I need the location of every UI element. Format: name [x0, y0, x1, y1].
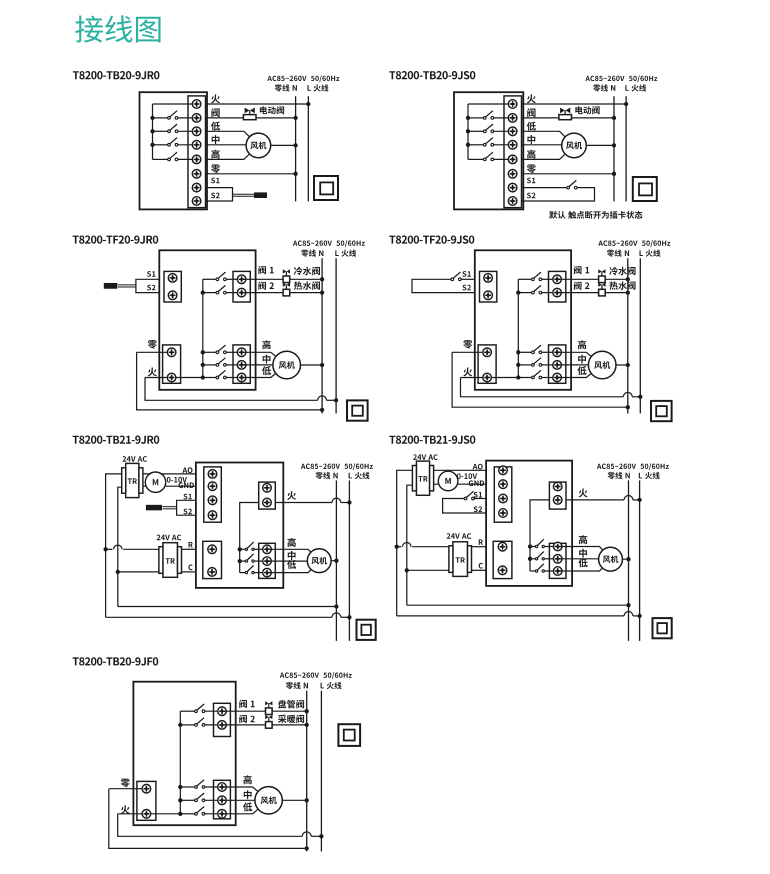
D3 wire fan to N [287, 364, 322, 366]
D4 wire 阀2 to N [557, 292, 628, 294]
D6 terminal screw AO [499, 466, 508, 475]
D5 junction rail on L [347, 615, 351, 619]
D2 power rating label AC85~260V 50/60Hz [585, 75, 657, 82]
D7 neutral label 零线 N [286, 682, 308, 689]
D6 fan switch 2 [535, 552, 544, 560]
D3 live label L 火线 [335, 250, 356, 257]
D3 wire bus to valve switch 1 [203, 278, 216, 280]
D2 valve label 电动阀 [575, 106, 599, 114]
D5 power rating label AC85~260V 50/60Hz [301, 463, 373, 470]
D2 terminal screw 8 [508, 197, 517, 206]
D5 rail outer to L with crossover [106, 616, 332, 618]
D3 wire 零 input [137, 351, 172, 353]
D2 wire switch low to terminal [494, 130, 513, 132]
D2 wire 火 terminal to L [522, 103, 627, 105]
D2 wire switch mid to terminal [494, 144, 513, 146]
D4 label 高 [578, 340, 586, 349]
D4 wire bus to valve switch 1 [518, 278, 531, 280]
D3 neutral live terminal box [163, 345, 181, 383]
D5 terminal screw aux [263, 484, 272, 493]
D2 live label L 火线 [625, 84, 646, 91]
D3 wire 阀1 to N [242, 278, 323, 280]
D4 零 drop wire [452, 352, 628, 407]
D6 R C terminal box [493, 541, 512, 578]
D6 terminal screw R [498, 542, 507, 551]
D7 thermostat outer box [133, 682, 235, 826]
D4 wire switch1 to 阀1 terminal [542, 278, 557, 280]
D7 label 中 [244, 790, 252, 799]
D4 junction fan on N [626, 363, 630, 367]
D1 live label L 火线 [307, 84, 328, 91]
D3 label 冷水阀 [294, 267, 320, 276]
D1 wire switch valve to terminal [178, 117, 197, 119]
D4 live label L 火线 [639, 250, 660, 257]
D6 terminal screw 火 [553, 496, 562, 505]
D4 terminal screw 零 [483, 348, 492, 357]
D5 fan switch 1 [245, 542, 254, 550]
D4 junction 阀2 on N [626, 290, 630, 294]
D6 fan motor 风机 [599, 547, 623, 571]
D2 terminal label 零 [527, 164, 536, 173]
D4 hot water valve symbol [598, 283, 605, 296]
D5 label GND [179, 482, 194, 488]
D4 label 阀 1 [574, 266, 589, 274]
D6 power line N [628, 480, 630, 641]
D1 wire 阀 terminal to N [206, 117, 296, 119]
D4 wire fan to N [602, 364, 628, 366]
D3 wire low speed to fan [242, 365, 287, 378]
D3 power line N [321, 258, 323, 413]
D3 junction bus live feed [201, 375, 205, 379]
D5 sensor probe [146, 505, 162, 511]
D6 thermostat outer box [486, 461, 572, 586]
D6 terminal screw fan 2 [553, 555, 562, 564]
D1 temperature sensor connector [206, 188, 233, 201]
D7 wire low speed to fan [222, 800, 269, 814]
D3 wire high speed to fan [242, 352, 287, 365]
D6 junction rail on L [637, 614, 641, 618]
D6 label S1 [474, 492, 482, 498]
D2 neutral label 零线 N [593, 84, 615, 91]
D5 terminal screw S2 [208, 511, 217, 520]
D2 junction 火 on L [624, 102, 628, 106]
D3 fan speed terminal box [233, 345, 250, 383]
D1 switch mid speed [168, 138, 178, 147]
D5 power line N [335, 480, 337, 641]
D7 terminal screw 阀1 [218, 707, 227, 716]
D5 wire GND [143, 485, 196, 487]
D3 wire switch2 to 阀2 terminal [226, 292, 241, 294]
D1 wire fan to N [258, 144, 295, 146]
D5 terminal screw fan 3 [263, 568, 272, 577]
D6 junction switch bus [528, 557, 532, 561]
D5 wire fan to N [319, 560, 336, 562]
D4 wire 零 input [452, 351, 487, 353]
D2 terminal label 火 [527, 94, 536, 103]
D3 internal bus vertical [202, 279, 204, 377]
D4 wire bus to fan switch 2 [518, 364, 531, 366]
D4 card contact circuit S1-S2 [412, 279, 475, 292]
D5 wire 24VAC outer to R with crossover [106, 548, 113, 550]
D4 label 热水阀 [609, 281, 635, 290]
D3 label 中 [263, 355, 271, 364]
D3 wire bus to valve switch 2 [203, 292, 216, 294]
D6 label 高 [579, 535, 587, 544]
D7 wire fan switch 2 to terminal [205, 799, 222, 801]
D7 terminal screw 火 [142, 810, 151, 819]
D1 model title T8200-TB20-9JR0 [73, 71, 160, 79]
D4 火 drop wire with crossover to L [461, 378, 624, 397]
D6 label 24V AC for TR1 [413, 454, 438, 460]
D1 wire low speed to fan [206, 131, 259, 145]
D3 class II insulation symbol [347, 400, 368, 420]
D3 label 热水阀 [294, 281, 320, 290]
D7 label 阀 2 [239, 715, 255, 723]
D7 heating valve symbol [265, 715, 272, 728]
D7 wire fan switch 3 to terminal [205, 813, 222, 815]
D4 fan switch 1 [532, 345, 542, 354]
D1 terminal label 中 [212, 135, 220, 144]
D7 junction 火 rail on L [319, 834, 323, 838]
D5 label 24V AC for TR2 [157, 535, 182, 541]
D2 terminal label 低 [527, 122, 536, 131]
D5 wire 火 box to switch bus [240, 503, 259, 573]
D2 switch mid speed [483, 138, 493, 147]
D3 junction 零 rail on N [320, 408, 324, 412]
D6 wire low speed to fan [558, 559, 611, 571]
D6 wire switch to terminal 3 [545, 570, 558, 572]
D6 junction fan on N [626, 557, 630, 561]
D7 terminal screw 阀2 [218, 721, 227, 730]
D6 label C [479, 563, 483, 569]
D1 terminal screw 7 [192, 183, 201, 192]
D2 terminal label S1 [527, 178, 535, 184]
D3 wire mid speed to fan [242, 364, 287, 366]
D3 thermostat outer box [159, 250, 255, 389]
D4 terminal screw S1 [484, 274, 493, 283]
page title 接线图 [75, 15, 160, 42]
D2 wire live feed to terminal 1 [468, 103, 513, 105]
D5 label 24V AC for TR1 [122, 456, 147, 462]
D5 fan switch 2 [245, 554, 254, 562]
D6 wire 24VAC inner to C [407, 569, 449, 571]
D7 fan switch 3 [195, 807, 205, 816]
D2 wire switch high to terminal [494, 158, 513, 160]
D2 fan motor 风机 [562, 133, 587, 158]
D6 label 24V AC for TR2 [447, 533, 472, 539]
D4 power line L [639, 258, 641, 413]
D1 terminal screw 2 [192, 114, 201, 123]
D4 terminal screw 阀1 [553, 275, 562, 284]
D7 label 盘管阀 [278, 700, 304, 709]
D6 model title T8200-TB21-9JS0 [389, 436, 475, 444]
D5 terminal screw GND [208, 482, 217, 491]
D3 valve switch 2 [216, 285, 226, 294]
D7 power line L [320, 691, 322, 852]
D1 wire 零 terminal to N [206, 173, 296, 175]
D7 fan switch 1 [195, 780, 205, 789]
D3 power rating label AC85~260V 50/60Hz [293, 240, 365, 247]
D3 fan switch 3 [216, 370, 226, 379]
D4 label 零 [463, 340, 472, 349]
D1 wire 火 terminal to L [206, 103, 309, 105]
D4 terminal screw 火 [483, 373, 492, 382]
D6 card contact circuit S1-S2 [443, 499, 487, 514]
D4 label 低 [577, 366, 586, 375]
D5 wire switch to terminal 2 [254, 560, 267, 562]
D2 wire bus to switch low [468, 130, 483, 132]
D2 terminal screw 2 [508, 114, 517, 123]
D3 fan motor 风机 [273, 351, 301, 379]
D5 junction switch bus [238, 559, 242, 563]
D4 wire high speed to fan [557, 352, 602, 365]
D4 junction on bus [516, 363, 520, 367]
D7 wire bus to fan switch 1 [180, 786, 194, 788]
D6 junction C on inner bus [405, 568, 409, 572]
D5 label C [188, 565, 192, 571]
D4 valve output terminal box [549, 271, 566, 302]
D6 label S2 [474, 506, 482, 512]
D4 wire mid speed to fan [557, 364, 602, 366]
D6 wire high speed to fan [558, 547, 611, 560]
D1 motorized valve symbol [243, 108, 256, 120]
D1 power line L [307, 96, 309, 201]
D5 label 低 [287, 560, 296, 569]
D1 sensor probe [254, 192, 267, 198]
D7 class II insulation symbol [338, 724, 360, 746]
D1 wire mid speed to fan [206, 144, 259, 146]
D6 junction 火 on L [637, 498, 641, 502]
D5 junction switch bus [238, 547, 242, 551]
D4 power line N [627, 258, 629, 413]
D6 terminal screw fan 1 [553, 542, 562, 551]
D1 terminal label 零 [211, 164, 220, 173]
D2 terminal label 高 [527, 150, 535, 159]
D5 actuator motor M [145, 472, 165, 492]
D4 sensor terminal box S1 S2 [480, 271, 497, 302]
D3 model title T8200-TF20-9JR0 [73, 235, 159, 243]
D7 wire bus to fan switch 3 [180, 813, 194, 815]
D6 wire TR2 to C terminal [472, 569, 487, 571]
D1 junction 零 on N [293, 172, 297, 176]
D2 power line N [613, 96, 615, 201]
D3 label S2 [147, 285, 155, 291]
D2 wire low speed to fan [522, 131, 575, 145]
D5 R C terminal box [203, 541, 222, 578]
D3 junction on bus [201, 363, 205, 367]
D2 terminal screw 6 [508, 170, 517, 179]
D5 junction C on inner bus [116, 570, 120, 574]
D2 wire 零 terminal to N [522, 173, 615, 175]
D1 class II insulation symbol [314, 176, 338, 200]
D6 junction R on outer bus [395, 545, 399, 549]
D2 junction bus row 4 [466, 143, 470, 147]
D5 wire bus to fan switch 3 [240, 572, 245, 574]
D6 wire 火 box to switch bus [530, 500, 549, 571]
D6 wire bus to fan switch 3 [530, 570, 535, 572]
D1 wire bus to switch low [153, 130, 168, 132]
D4 label S2 [462, 285, 470, 291]
D1 terminal label 高 [211, 150, 219, 159]
D3 wire 阀2 to N [242, 292, 323, 294]
D7 live label L 火线 [321, 682, 342, 689]
D2 power line L [625, 96, 627, 201]
D7 valve switch 1 [195, 704, 205, 713]
D7 wire 火 input to bus [118, 813, 181, 815]
D5 class II insulation symbol [357, 620, 376, 640]
D2 junction bus row 2 [466, 116, 470, 120]
D7 fan switch 2 [195, 793, 205, 802]
D3 terminal screw fan 3 [237, 373, 246, 382]
D2 terminal screw 4 [508, 141, 517, 150]
D4 label 阀 2 [574, 282, 590, 290]
D1 sensor cable [233, 193, 255, 195]
D1 wire switch high to terminal [178, 158, 197, 160]
D3 junction fan on N [320, 363, 324, 367]
D3 junction on bus [201, 350, 205, 354]
D2 junction 零 on N [612, 172, 616, 176]
D3 wire bus to fan switch 2 [203, 364, 216, 366]
D4 junction 阀1 on N [626, 277, 630, 281]
D7 junction on bus [178, 798, 182, 802]
D7 power rating label AC85~260V 50/60Hz [280, 672, 352, 679]
D4 internal bus vertical [517, 279, 519, 377]
D3 terminal screw 零 [167, 348, 176, 357]
D1 wire high speed to fan [206, 145, 259, 159]
D1 power line N [295, 96, 297, 201]
D2 junction fan on N [612, 143, 616, 147]
D1 junction bus row 3 [150, 129, 154, 133]
D4 wire 火 input to bus [461, 377, 519, 379]
D1 terminal screw 1 [192, 100, 201, 109]
D1 valve label 电动阀 [260, 106, 284, 114]
D4 fan switch 2 [532, 358, 542, 367]
D1 terminal label S1 [211, 178, 219, 184]
D3 sensor terminal box S1 S2 [164, 271, 181, 302]
D4 label 中 [578, 355, 586, 364]
D3 wire fan switch 2 to terminal [226, 364, 241, 366]
D2 wire 阀 terminal to N [522, 117, 615, 119]
D2 switch high speed [483, 152, 493, 161]
D2 wire switch valve to terminal [494, 117, 513, 119]
D4 wire fan switch 2 to terminal [542, 364, 557, 366]
D5 terminal screw AO [208, 470, 217, 479]
D2 terminal label 阀 [527, 108, 535, 117]
D2 terminal screw 5 [508, 155, 517, 164]
D3 sensor probe [104, 283, 118, 289]
D5 wire TR2 to R terminal [182, 548, 196, 550]
D5 label S1 [183, 494, 191, 500]
D2 class II insulation symbol [633, 177, 657, 201]
D7 wire bus to valve switch 1 [180, 710, 194, 712]
D2 thermostat outer box [454, 92, 523, 209]
D7 power line N [306, 691, 308, 852]
D5 wire TR1 to 24VAC bus inner [118, 487, 122, 606]
D5 wire 火 to L with crossover [275, 502, 332, 504]
D1 wire bus to switch valve [153, 117, 168, 119]
D4 label 冷水阀 [609, 267, 635, 276]
D6 wire mid speed to fan [558, 558, 611, 560]
D3 零 drop wire [137, 352, 323, 410]
D7 wire 阀2 to N [222, 724, 307, 726]
D2 junction bus row 3 [466, 129, 470, 133]
D1 terminal screw 8 [192, 197, 201, 206]
D7 label 高 [243, 775, 251, 784]
D6 wire 火 to L with crossover [566, 499, 624, 501]
D3 terminal screw 阀1 [237, 275, 246, 284]
D4 valve switch 2 [532, 285, 542, 294]
D2 junction 阀 on N [612, 116, 616, 120]
D3 valve switch 1 [216, 272, 226, 281]
D7 junction on bus [178, 723, 182, 727]
D7 label 采暖阀 [278, 715, 304, 723]
D1 terminal screw 3 [192, 127, 201, 136]
D7 neutral live terminal box [137, 781, 156, 820]
D2 wire high speed to fan [522, 145, 575, 159]
D6 fan switch 3 [535, 564, 544, 572]
D4 wire 阀1 to N [557, 278, 628, 280]
D6 wire AO [434, 469, 487, 471]
D4 valve switch 1 [532, 272, 542, 281]
D4 power rating label AC85~260V 50/60Hz [598, 240, 670, 247]
D4 terminal screw fan 2 [553, 361, 562, 370]
D5 wire switch to terminal 1 [254, 548, 267, 550]
D7 fan speed terminal box [214, 780, 231, 819]
D1 terminal label 低 [211, 122, 220, 131]
D5 junction R on outer bus [103, 547, 107, 551]
D1 junction bus row 2 [150, 116, 154, 120]
D5 wire switch to terminal 3 [254, 572, 267, 574]
D5 fan switch 3 [245, 565, 254, 573]
D3 火 drop wire with crossover to L [145, 378, 318, 401]
D5 fan terminal box [259, 543, 276, 578]
D6 junction rail on N [626, 603, 630, 607]
D2 wire fan to N [574, 144, 614, 146]
D7 junction bus live feed [178, 812, 182, 816]
D1 switch low speed [168, 124, 178, 133]
D6 junction switch bus [528, 544, 532, 548]
D6 terminal screw S2 [499, 509, 508, 518]
D6 wire switch to terminal 2 [545, 558, 558, 560]
D7 terminal screw fan 1 [218, 783, 227, 792]
D3 wire fan switch 3 to terminal [226, 377, 241, 379]
D6 label 火 [579, 489, 588, 498]
D3 terminal screw fan 1 [237, 348, 246, 357]
D7 label 低 [243, 802, 252, 811]
D1 junction fan on N [293, 143, 297, 147]
D3 label 高 [262, 340, 270, 349]
D7 junction 阀2 on N [305, 723, 309, 727]
D5 wire TR1 to 24VAC bus outer [106, 474, 122, 617]
D6 terminal screw GND [499, 480, 508, 489]
D6 wire 24VAC outer to R with crossover [397, 546, 402, 548]
D7 label 零 [121, 779, 130, 788]
D5 wire AO [143, 473, 196, 475]
D5 wire TR2 to C terminal [182, 571, 196, 573]
D1 terminal label S2 [211, 193, 219, 199]
D7 coil valve symbol [265, 701, 272, 714]
D6 label 中 [579, 549, 587, 558]
D7 junction on bus [178, 785, 182, 789]
D4 wire bus to fan switch 1 [518, 351, 531, 353]
D6 transformer TR1 [416, 461, 429, 495]
D7 wire high speed to fan [222, 787, 269, 800]
D2 card contact circuit S1-S2 [522, 187, 567, 189]
D5 terminal screw S1 [208, 496, 217, 505]
D3 terminal screw S2 [168, 291, 177, 300]
D6 rail outer to L with crossover [397, 615, 624, 617]
D5 power line L [348, 480, 350, 641]
